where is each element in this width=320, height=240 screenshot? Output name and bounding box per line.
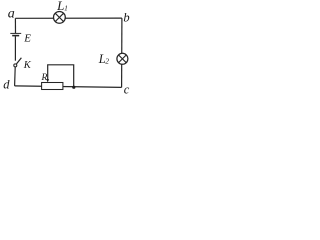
svg-text:c: c xyxy=(124,83,130,97)
svg-text:2: 2 xyxy=(105,57,109,66)
svg-text:a: a xyxy=(8,7,15,22)
svg-text:E: E xyxy=(23,33,31,45)
svg-text:d: d xyxy=(3,77,10,91)
svg-text:K: K xyxy=(23,60,32,71)
svg-text:L: L xyxy=(56,0,64,13)
svg-text:b: b xyxy=(123,11,129,25)
svg-text:R: R xyxy=(41,73,48,83)
svg-text:1: 1 xyxy=(64,3,68,12)
